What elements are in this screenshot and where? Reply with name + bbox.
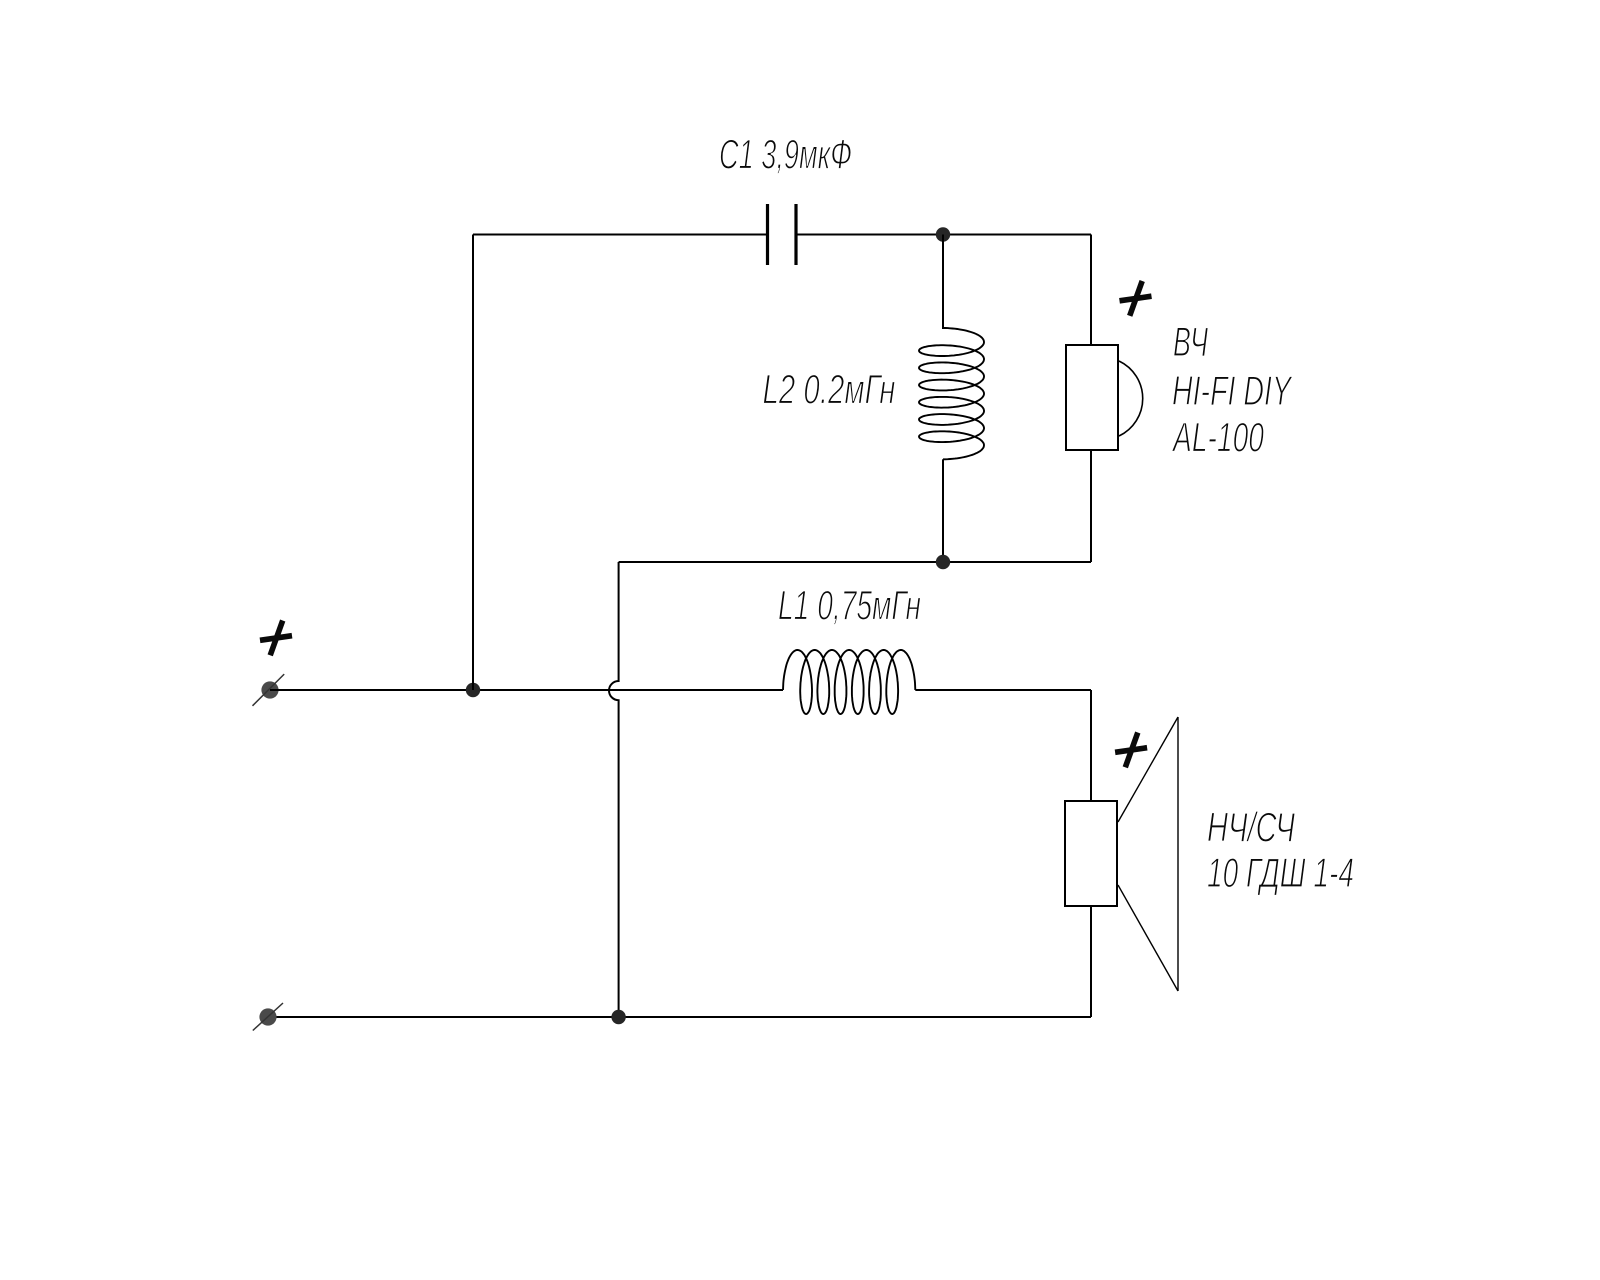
svg-text:HI-FI DIY: HI-FI DIY: [1172, 367, 1293, 414]
svg-text:С1 3,9мкФ: С1 3,9мкФ: [719, 131, 852, 178]
node junction dot input branch (to C1): [466, 683, 480, 697]
wire mid horizontal (tweeter negative net): [619, 561, 1091, 563]
wire vertical negative net with hop over positive wire: [609, 562, 619, 1017]
wire top horizontal left segment (input plus net to C1): [473, 234, 767, 236]
woofer cone top line: [1118, 717, 1178, 822]
wire woofer positive lead down: [1090, 690, 1092, 801]
tweeter polarity plus: [1120, 296, 1152, 301]
input terminal plus: [260, 636, 292, 641]
wire woofer negative lead down: [1090, 906, 1092, 1017]
input terminal top slash: [253, 674, 285, 706]
inductor L1 coil: [783, 650, 915, 714]
input terminal bottom dot: [259, 1008, 276, 1025]
input terminal bottom slash: [253, 1003, 283, 1031]
svg-text:AL-100: AL-100: [1171, 414, 1264, 461]
wire top horizontal right segment (C1 to tweeter branch): [798, 234, 1092, 236]
wire L1 to woofer: [915, 689, 1091, 691]
wire bottom negative horizontal: [268, 1016, 1091, 1018]
tweeter speaker U1 rectangle: [1066, 345, 1118, 450]
node junction dot top (C1 / L2 / tweeter): [936, 227, 950, 241]
inductor L2 coil: [919, 328, 984, 459]
svg-text:10 ГДШ 1-4: 10 ГДШ 1-4: [1207, 849, 1354, 896]
wire tweeter positive lead down: [1090, 235, 1092, 346]
wire L2 bottom lead: [942, 459, 944, 562]
svg-text:НЧ/СЧ: НЧ/СЧ: [1207, 804, 1295, 851]
input terminal top dot: [261, 681, 278, 698]
svg-text:L1 0,75мГн: L1 0,75мГн: [778, 582, 921, 629]
node junction dot bottom (negative net): [611, 1010, 625, 1024]
woofer cone bottom line: [1118, 885, 1178, 991]
woofer speaker rectangle: [1065, 801, 1117, 906]
woofer polarity plus: [1115, 748, 1147, 753]
capacitor C1: [768, 204, 797, 265]
node junction dot mid (L2 bottom / tweeter negative): [936, 555, 950, 569]
tweeter dome: [1119, 361, 1143, 436]
wire tweeter negative lead down: [1090, 450, 1092, 562]
woofer cone front vertical: [1177, 717, 1179, 991]
wire input positive horizontal: [270, 689, 783, 691]
wire vertical branch to C1: [472, 235, 474, 691]
svg-text:L2 0.2мГн: L2 0.2мГн: [763, 366, 896, 413]
wire L2 top lead: [942, 235, 944, 330]
svg-text:ВЧ: ВЧ: [1173, 318, 1208, 365]
